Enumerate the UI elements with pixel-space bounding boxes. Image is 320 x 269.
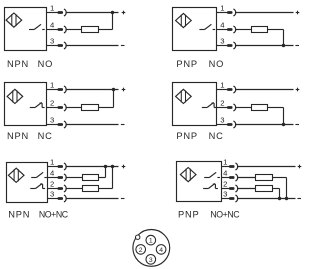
wire pin2 stub	[217, 107, 228, 109]
pin number 3	[50, 189, 54, 198]
connector face (M12 plug view)	[133, 230, 170, 267]
wire pin4 stub	[217, 29, 228, 31]
wire pin4 to load	[236, 29, 252, 31]
terminal -	[295, 124, 299, 126]
wire pin1 to +	[67, 89, 119, 91]
svg-text:4: 4	[50, 20, 55, 29]
junction node on pin3	[282, 44, 285, 47]
resistor load on pin 4	[252, 27, 268, 33]
connector pin 1	[229, 163, 238, 170]
pin number 1	[50, 80, 54, 89]
pin number 2	[223, 179, 227, 188]
svg-text:3: 3	[50, 36, 54, 45]
wire dropper to pin3	[283, 108, 285, 125]
connector pin 4	[227, 26, 236, 33]
switch contact NO	[199, 24, 215, 29]
connector pin 1	[58, 86, 67, 93]
resistor load on pin 4	[256, 175, 273, 181]
wire load to riser	[99, 188, 113, 190]
pin number 1	[220, 80, 224, 89]
svg-text:3: 3	[50, 115, 54, 124]
connector pin 2	[58, 185, 67, 192]
wire pin1 stub	[47, 12, 58, 14]
pin number 3	[223, 189, 227, 198]
terminal -	[121, 124, 125, 126]
pin number 3	[50, 115, 54, 124]
wire pin4 to load	[67, 29, 82, 31]
svg-text:1: 1	[149, 238, 153, 245]
sensor box (NPN NO)	[5, 8, 47, 51]
pin number 3	[50, 36, 54, 45]
wire pin2 to load	[236, 107, 252, 109]
label NPN NO	[7, 59, 53, 69]
wire pin3 to -	[67, 45, 119, 47]
wire pin3 stub	[217, 45, 228, 47]
switch contact NC	[30, 183, 45, 188]
connector pin 4	[58, 26, 67, 33]
sensor box (PNP NO+NC)	[177, 162, 222, 202]
svg-text:2: 2	[50, 98, 54, 107]
switch contact NO	[31, 172, 47, 177]
label NPN NC	[7, 131, 53, 141]
wire pin2 to load	[67, 188, 83, 190]
connector pin 1	[146, 235, 156, 245]
svg-text:1: 1	[50, 157, 54, 166]
proximity sensor symbol (diamond)	[6, 13, 22, 27]
svg-text:1: 1	[50, 3, 54, 12]
resistor load on pin 2	[256, 186, 273, 192]
wire pin4 to load	[238, 177, 256, 179]
pin number 2	[220, 98, 224, 107]
connector pin 1	[227, 86, 236, 93]
svg-text:2: 2	[139, 247, 143, 254]
svg-text:3: 3	[149, 257, 153, 264]
svg-text:NO+NC: NO+NC	[210, 210, 240, 220]
svg-text:4: 4	[50, 168, 55, 177]
terminal +	[122, 88, 126, 92]
svg-text:NO+NC: NO+NC	[39, 210, 69, 220]
junction node pin4 riser	[104, 165, 107, 168]
sensor box (PNP NC)	[173, 83, 217, 126]
wire pin1 stub	[222, 166, 230, 168]
connector pin 2	[58, 104, 67, 111]
wire pin1 stub	[48, 166, 58, 168]
switch contact NC	[203, 183, 218, 188]
wire riser to pin1	[112, 13, 114, 30]
svg-text:3: 3	[220, 115, 224, 124]
connector pin 4	[58, 174, 67, 181]
switch contact NO	[204, 172, 220, 177]
svg-text:4: 4	[159, 247, 163, 254]
wire load to dropper	[273, 188, 280, 190]
pin number 1	[220, 3, 224, 12]
connector pin 3	[227, 42, 236, 49]
wire pin3 stub	[47, 124, 58, 126]
terminal +	[122, 165, 126, 169]
wire pin1 to +	[67, 166, 119, 168]
wire pin3 to -	[67, 198, 119, 200]
connector pin 3	[229, 195, 238, 202]
wire pin3 to -	[67, 124, 119, 126]
wire load to riser	[99, 29, 113, 31]
wire pin3 stub	[222, 198, 230, 200]
connector pin 4	[229, 174, 238, 181]
junction node pin2 riser	[112, 88, 115, 91]
wire load to riser	[99, 107, 114, 109]
svg-text:1: 1	[223, 157, 227, 166]
wire pin3 to -	[236, 124, 294, 126]
wire pin3 stub	[217, 124, 228, 126]
svg-text:2: 2	[223, 179, 227, 188]
label NPN NO+NC	[8, 210, 68, 220]
wire pin4 stub	[48, 177, 58, 179]
svg-text:1: 1	[220, 3, 224, 12]
pin number 1	[50, 157, 54, 166]
wire pin3 stub	[48, 198, 58, 200]
sensor box (PNP NO)	[173, 8, 217, 51]
sensor box (NPN NO+NC)	[7, 163, 48, 203]
terminal -	[295, 45, 299, 47]
pin number 2	[50, 98, 54, 107]
svg-text:1: 1	[50, 80, 54, 89]
svg-text:2: 2	[220, 98, 224, 107]
label PNP NC	[176, 131, 223, 141]
connector pin 4	[156, 245, 166, 255]
wire load to dropper	[268, 107, 284, 109]
wire pin3 to -	[238, 198, 296, 200]
svg-text:4: 4	[223, 168, 228, 177]
switch contact NC	[30, 102, 45, 107]
proximity sensor symbol (diamond)	[180, 168, 196, 182]
svg-text:NPN: NPN	[7, 59, 29, 69]
svg-text:PNP: PNP	[176, 131, 198, 141]
connector pin 1	[227, 9, 236, 16]
keying notch	[136, 235, 140, 239]
connector pin 2	[229, 185, 238, 192]
junction node on pin3	[278, 197, 281, 200]
wire dropper to pin3	[286, 178, 288, 199]
connector pin 3	[227, 121, 236, 128]
wire load to riser	[99, 177, 106, 179]
terminal +	[298, 165, 302, 169]
proximity sensor symbol (diamond)	[8, 168, 24, 182]
terminal -	[121, 45, 125, 47]
connector pin 3	[58, 121, 67, 128]
wire pin4 stub	[47, 29, 58, 31]
wire pin1 to +	[236, 12, 294, 14]
wire pin1 to +	[67, 12, 119, 14]
terminal -	[121, 198, 125, 200]
pin number 4	[50, 168, 55, 177]
wire pin3 to -	[236, 45, 294, 47]
svg-text:NO: NO	[38, 59, 54, 69]
connector pin 1	[58, 163, 67, 170]
pin number 2	[50, 179, 54, 188]
terminal -	[297, 198, 301, 200]
resistor load on pin 4	[82, 27, 99, 33]
connector pin 3	[58, 42, 67, 49]
sensor box (NPN NC)	[5, 83, 47, 126]
wire pin1 to +	[236, 89, 294, 91]
connector pin 2	[227, 104, 236, 111]
svg-text:NPN: NPN	[7, 131, 29, 141]
wire pin2 to load	[238, 188, 256, 190]
resistor load on pin 2	[83, 186, 99, 192]
svg-text:3: 3	[223, 189, 227, 198]
wire riser to pin1	[105, 167, 107, 178]
svg-text:NC: NC	[209, 131, 224, 141]
wire pin4 to load	[67, 177, 83, 179]
resistor load on pin 2	[252, 105, 268, 111]
resistor load on pin 2	[82, 105, 99, 111]
wire riser to pin1	[113, 90, 115, 108]
wire pin3 stub	[47, 45, 58, 47]
junction node pin2 riser	[111, 165, 114, 168]
label PNP NO+NC	[178, 210, 240, 220]
connector pin 2	[136, 245, 146, 255]
svg-text:3: 3	[220, 36, 224, 45]
terminal +	[296, 11, 300, 15]
pin number 4	[223, 168, 228, 177]
svg-text:PNP: PNP	[178, 210, 200, 220]
terminal +	[296, 88, 300, 92]
svg-text:3: 3	[50, 189, 54, 198]
wire dropper to pin3	[283, 30, 285, 46]
wire load to dropper	[273, 177, 287, 179]
proximity sensor symbol (diamond)	[176, 13, 192, 27]
wire pin1 stub	[217, 89, 228, 91]
pin number 3	[220, 115, 224, 124]
pin number 3	[220, 36, 224, 45]
switch contact NC	[202, 102, 217, 107]
junction node pin4 riser	[111, 11, 114, 14]
terminal +	[122, 11, 126, 15]
svg-text:NC: NC	[38, 131, 53, 141]
wire riser to pin1	[112, 167, 114, 189]
wire pin1 stub	[217, 12, 228, 14]
wire pin2 stub	[48, 188, 58, 190]
wire pin2 stub	[47, 107, 58, 109]
switch contact NO	[29, 24, 45, 29]
wire dropper to pin3	[279, 189, 281, 199]
svg-text:PNP: PNP	[176, 59, 198, 69]
svg-text:1: 1	[220, 80, 224, 89]
wire pin2 to load	[67, 107, 82, 109]
resistor load on pin 4	[83, 175, 99, 181]
svg-text:4: 4	[220, 20, 225, 29]
pin number 1	[50, 3, 54, 12]
pin number 4	[50, 20, 55, 29]
connector pin 1	[58, 9, 67, 16]
connector pin 3	[146, 254, 156, 264]
wire load to dropper	[268, 29, 284, 31]
svg-text:NPN: NPN	[8, 210, 30, 220]
connector pin 3	[58, 195, 67, 202]
proximity sensor symbol (diamond)	[7, 89, 23, 103]
proximity sensor symbol (diamond)	[176, 89, 192, 103]
wire pin1 to +	[238, 166, 296, 168]
wire pin1 stub	[47, 89, 58, 91]
junction node on pin3	[285, 197, 288, 200]
wire pin4 stub	[222, 177, 230, 179]
wire pin2 stub	[222, 188, 230, 190]
junction node on pin3	[282, 123, 285, 126]
svg-text:NO: NO	[209, 59, 225, 69]
pin number 1	[223, 157, 227, 166]
label PNP NO	[176, 59, 224, 69]
pin number 4	[220, 20, 225, 29]
svg-text:2: 2	[50, 179, 54, 188]
